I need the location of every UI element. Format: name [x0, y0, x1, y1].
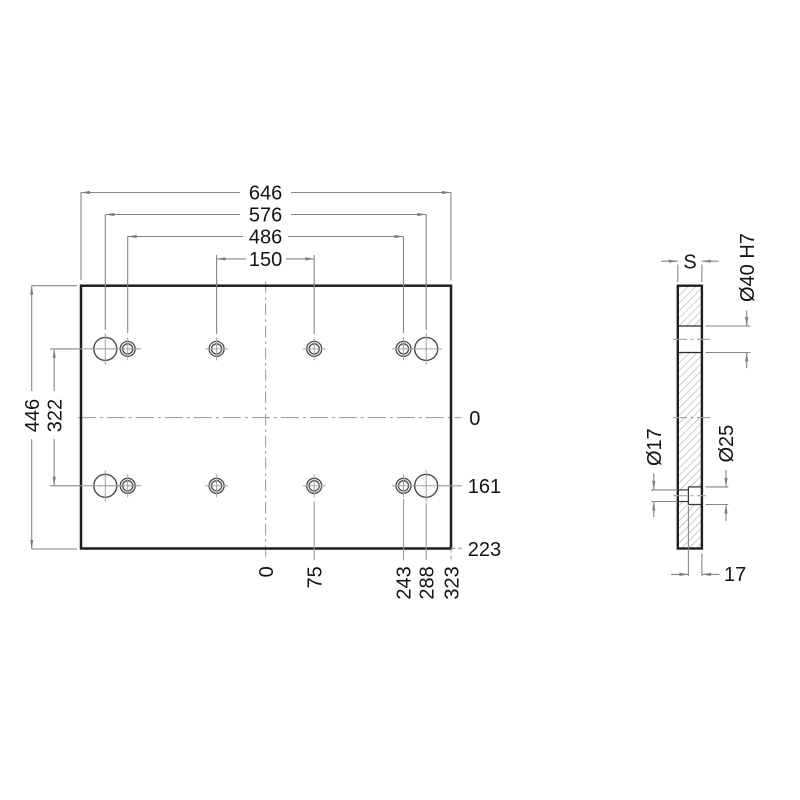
counterbore white — [688, 487, 702, 505]
hole B2 counterbore bottom-left — [120, 478, 135, 493]
hole D1 cross ticks — [303, 337, 326, 360]
bore band center line — [673, 338, 710, 340]
hole F2 large bottom-right — [415, 474, 438, 497]
bore band white — [677, 326, 704, 353]
extension lines S — [678, 265, 702, 283]
extension line left 646 — [80, 192, 82, 280]
side main center line — [673, 417, 710, 419]
hole B2 cross ticks — [116, 474, 139, 497]
svg-text:288: 288 — [416, 566, 438, 599]
dimension 576 — [105, 214, 426, 216]
dimension dia 40 — [746, 311, 748, 369]
hole A2 cross ticks — [90, 470, 122, 502]
hole E2 cross ticks — [392, 474, 415, 497]
svg-text:646: 646 — [249, 183, 282, 205]
svg-text:17: 17 — [724, 564, 746, 586]
hole F2 cross ticks — [410, 470, 442, 502]
tick below edge 323 — [450, 549, 452, 561]
dimension 322 — [53, 349, 55, 486]
hole E2 counterbore bottom-right — [396, 478, 411, 493]
svg-text:0: 0 — [256, 566, 278, 577]
dimension 17 depth — [671, 573, 720, 575]
hole E1 cross ticks — [392, 337, 415, 360]
svg-text:243: 243 — [394, 566, 416, 599]
extension line right 576 — [425, 215, 427, 331]
extension line right 486 — [403, 237, 405, 334]
svg-text:322: 322 — [44, 399, 66, 432]
svg-text:446: 446 — [22, 399, 44, 432]
svg-text:75: 75 — [304, 566, 326, 588]
leader 223 — [451, 547, 462, 549]
counterbore outline — [688, 487, 702, 505]
slot white — [677, 490, 689, 502]
extension line right 150 — [313, 255, 315, 334]
hole A2 large bottom-left — [94, 474, 117, 497]
svg-text:161: 161 — [468, 476, 501, 498]
extension line bottom 322 — [50, 485, 81, 487]
hole A1 cross ticks — [90, 333, 122, 365]
svg-text:0: 0 — [469, 408, 480, 430]
side bar outline — [678, 286, 702, 549]
extension line top 322 — [50, 348, 81, 350]
hole D2 cross ticks — [303, 474, 326, 497]
dimension 646 — [81, 192, 451, 194]
extension line top 446 — [32, 285, 78, 287]
extension line left 576 — [104, 215, 106, 331]
vertical center line of plate — [265, 282, 267, 561]
svg-text:Ø40 H7: Ø40 H7 — [737, 233, 759, 302]
extension lines 17 depth — [688, 506, 702, 576]
svg-text:S: S — [683, 251, 696, 273]
dimension 150 — [217, 258, 315, 260]
extension lines dia 25 — [706, 487, 729, 505]
extension line bottom 446 — [32, 548, 78, 550]
hole E1 counterbore top-right — [396, 341, 411, 356]
extension lines dia 40 — [706, 326, 751, 353]
hole C2 counterbore bottom-mid-left — [209, 478, 224, 493]
extension line right 646 — [450, 192, 452, 280]
extension lines dia 17 — [651, 490, 678, 502]
dimension 446 — [31, 286, 33, 549]
side bar hatched body — [678, 286, 702, 549]
tick below hole 243 — [403, 499, 405, 560]
dimension 486 — [128, 236, 404, 238]
slot center line — [673, 495, 706, 497]
hole D2 counterbore bottom-mid-right — [307, 478, 322, 493]
plate outline front view — [81, 286, 451, 549]
hole A1 large top-left — [94, 337, 117, 360]
center line bottom row right / leader 161 — [438, 485, 462, 487]
svg-text:Ø25: Ø25 — [716, 425, 738, 463]
hole C1 cross ticks — [205, 337, 228, 360]
hole B1 counterbore top-left — [120, 341, 135, 356]
svg-text:486: 486 — [249, 227, 282, 249]
tick below hole 288 — [425, 503, 427, 560]
center line top row left — [81, 348, 142, 350]
dimension dia 17 — [653, 474, 655, 518]
dimension S — [661, 260, 719, 262]
svg-text:Ø17: Ø17 — [644, 428, 666, 466]
dimension dia 25 — [725, 470, 727, 521]
hole F1 large top-right — [415, 337, 438, 360]
slot edges — [678, 490, 689, 502]
extension line left 150 — [216, 255, 218, 334]
hole B1 cross ticks — [116, 337, 139, 360]
extension line left 486 — [127, 237, 129, 334]
bore band edges — [678, 326, 702, 353]
svg-text:576: 576 — [249, 205, 282, 227]
hole C1 counterbore top-mid-left — [209, 341, 224, 356]
tick below hole 75 — [313, 502, 315, 561]
hole D1 counterbore top-mid-right — [307, 341, 322, 356]
svg-text:323: 323 — [441, 566, 463, 599]
center line bottom row left — [81, 485, 142, 487]
hole C2 cross ticks — [205, 474, 228, 497]
hole F1 cross ticks — [410, 333, 442, 365]
horizontal center line of plate — [78, 417, 462, 419]
svg-text:150: 150 — [249, 249, 282, 271]
svg-text:223: 223 — [468, 539, 501, 561]
